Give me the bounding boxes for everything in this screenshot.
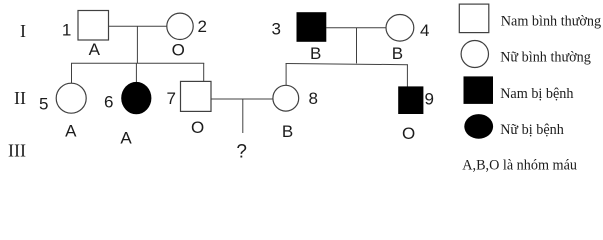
- svg-text:7: 7: [167, 89, 176, 108]
- svg-text:O: O: [191, 118, 204, 137]
- svg-text:?: ?: [236, 141, 247, 162]
- svg-text:B: B: [282, 122, 293, 141]
- svg-text:9: 9: [425, 90, 434, 109]
- svg-text:2: 2: [198, 17, 207, 36]
- svg-text:II: II: [14, 88, 26, 108]
- svg-text:O: O: [172, 41, 185, 60]
- svg-text:Nam bị bệnh: Nam bị bệnh: [500, 86, 573, 102]
- svg-text:B: B: [310, 44, 321, 63]
- svg-text:5: 5: [39, 95, 48, 114]
- svg-text:6: 6: [104, 93, 113, 112]
- svg-text:4: 4: [420, 21, 429, 40]
- svg-text:A,B,O là nhóm máu: A,B,O là nhóm máu: [462, 157, 577, 173]
- svg-text:O: O: [402, 124, 415, 143]
- svg-text:A: A: [65, 121, 77, 140]
- svg-text:B: B: [392, 44, 403, 63]
- svg-text:8: 8: [309, 89, 318, 108]
- svg-text:I: I: [20, 21, 26, 41]
- svg-text:Nữ bị bệnh: Nữ bị bệnh: [500, 122, 564, 138]
- svg-text:1: 1: [62, 20, 71, 39]
- svg-text:3: 3: [272, 20, 281, 39]
- svg-text:Nữ bình thường: Nữ bình thường: [500, 49, 591, 65]
- svg-text:A: A: [89, 40, 101, 59]
- svg-text:III: III: [8, 140, 26, 160]
- svg-text:A: A: [120, 128, 132, 147]
- svg-text:Nam bình thường: Nam bình thường: [501, 14, 601, 30]
